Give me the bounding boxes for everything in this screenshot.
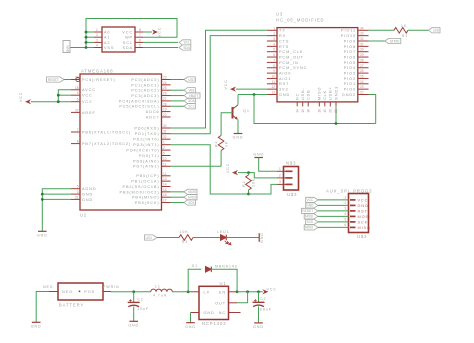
- svg-text:GND: GND: [233, 136, 244, 140]
- regulator U1 NCP1402: [191, 281, 241, 326]
- net flag MISO at U2 PB4: [171, 195, 198, 200]
- svg-text:10K: 10K: [252, 178, 256, 187]
- svg-text:OUT: OUT: [215, 301, 226, 305]
- svg-text:R1: R1: [402, 34, 408, 38]
- svg-text:20: 20: [75, 108, 79, 112]
- svg-text:4.7uH: 4.7uH: [153, 294, 167, 298]
- svg-text:26: 26: [163, 92, 167, 96]
- svg-text:3: 3: [96, 38, 98, 42]
- svg-text:GND: GND: [185, 325, 196, 329]
- wire: U3 GND pins to Q1 collector: [238, 93, 376, 125]
- wire: R3 to LED1: [193, 237, 221, 239]
- svg-text:10K: 10K: [179, 230, 188, 234]
- svg-text:13: 13: [163, 177, 167, 181]
- wire: AVCC/VCC bus to VCC arrow: [31, 90, 71, 103]
- svg-text:MISO: MISO: [358, 226, 371, 230]
- svg-text:3: 3: [279, 180, 281, 184]
- svg-text:23: 23: [163, 76, 167, 80]
- net flag LED at U2 PC0: [171, 77, 196, 82]
- svg-text:17: 17: [163, 199, 167, 203]
- svg-text:A2: A2: [104, 41, 110, 45]
- svg-text:STATE: STATE: [390, 39, 400, 43]
- svg-text:10uF: 10uF: [137, 307, 149, 311]
- svg-text:SCK: SCK: [188, 201, 195, 205]
- svg-text:5: 5: [345, 218, 347, 222]
- wire: U2 PD3 to connector net: [171, 145, 249, 194]
- net flag VCC to U$2 pin 1: [306, 197, 349, 202]
- svg-text:10: 10: [271, 74, 275, 78]
- capacitor C2 68uF: [253, 292, 272, 323]
- ground symbol below U2: [37, 231, 48, 237]
- svg-text:BATTERY: BATTERY: [59, 303, 84, 308]
- svg-text:11: 11: [163, 162, 167, 166]
- svg-text:30: 30: [163, 124, 167, 128]
- svg-text:25: 25: [360, 74, 364, 78]
- svg-text:22: 22: [360, 91, 364, 95]
- svg-text:4: 4: [77, 91, 79, 95]
- svg-text:PD6(AIN0): PD6(AIN0): [133, 159, 159, 163]
- svg-text:PD3(INT1): PD3(INT1): [133, 143, 159, 147]
- svg-text:68uF: 68uF: [260, 307, 272, 311]
- svg-text:RX: RX: [279, 34, 286, 38]
- svg-text:VSS: VSS: [104, 46, 114, 50]
- svg-text:1: 1: [279, 167, 281, 171]
- svg-text:SCK: SCK: [358, 220, 369, 224]
- net flag RESET to U$2 pin 3: [302, 208, 349, 213]
- svg-text:NC: NC: [219, 311, 226, 315]
- net flag VBATT at U2 PC3: [171, 93, 201, 98]
- svg-text:VBATT: VBATT: [189, 94, 199, 98]
- ground symbol above connector: [253, 152, 264, 157]
- svg-text:PB0(ICP): PB0(ICP): [136, 174, 159, 178]
- svg-text:18: 18: [75, 86, 79, 90]
- inversion bubble on PC6(/RESET) pin: [76, 78, 80, 82]
- svg-text:9: 9: [163, 152, 165, 156]
- svg-text:7: 7: [77, 128, 79, 132]
- svg-text:A0: A0: [104, 30, 110, 34]
- svg-text:PC4(ADC4/SDA): PC4(ADC4/SDA): [119, 99, 160, 103]
- resistor R4 1K: [215, 136, 229, 151]
- svg-text:1: 1: [163, 141, 165, 145]
- svg-text:AREF: AREF: [82, 111, 96, 115]
- svg-text:ATMEGA168: ATMEGA168: [81, 69, 113, 74]
- svg-text:PIO10: PIO10: [341, 34, 356, 38]
- svg-text:GND3: GND3: [334, 86, 338, 100]
- svg-text:MOSI: MOSI: [305, 215, 313, 219]
- svg-text:3: 3: [345, 207, 347, 211]
- svg-text:9: 9: [273, 69, 275, 73]
- svg-text:AIO1: AIO1: [279, 77, 291, 81]
- net flag SCL at U2 PC5: [171, 104, 196, 109]
- svg-text:33: 33: [360, 32, 364, 36]
- svg-text:CLK: CLK: [323, 90, 327, 100]
- svg-text:LED: LED: [188, 78, 195, 82]
- svg-text:SCL: SCL: [184, 41, 190, 45]
- svg-text:GND: GND: [37, 234, 48, 238]
- net flag RESET at U2 PC6: [47, 77, 72, 82]
- svg-text:MISO: MISO: [318, 87, 322, 100]
- svg-text:4: 4: [96, 44, 98, 48]
- svg-text:VCC: VCC: [224, 79, 228, 89]
- net flag SCK to U$2 pin 5: [306, 219, 349, 224]
- svg-text:C2: C2: [260, 297, 266, 301]
- svg-text:NC: NC: [296, 93, 300, 100]
- vcc symbol at U1 output: [262, 287, 276, 294]
- svg-text:R2: R2: [242, 181, 246, 187]
- svg-text:PB3(MOSI/OC2): PB3(MOSI/OC2): [120, 190, 160, 194]
- svg-text:28: 28: [163, 102, 167, 106]
- svg-text:4: 4: [273, 42, 275, 46]
- wire: left pins bus to GND label: [70, 19, 177, 49]
- svg-text:PC3(ADC3): PC3(ADC3): [131, 94, 159, 98]
- svg-text:MOSI: MOSI: [188, 190, 196, 194]
- svg-text:RESET: RESET: [302, 209, 313, 213]
- svg-text:RST: RST: [358, 209, 368, 213]
- svg-text:24: 24: [163, 81, 167, 85]
- svg-text:22: 22: [163, 113, 167, 117]
- svg-text:PB2(SS/OC1B): PB2(SS/OC1B): [123, 185, 160, 189]
- wire: battery POS to L1: [111, 290, 151, 293]
- svg-text:GND: GND: [306, 204, 314, 208]
- svg-text:PC0(ADC0): PC0(ADC0): [131, 78, 159, 82]
- svg-text:21: 21: [75, 195, 79, 199]
- svg-text:USB-: USB-: [301, 87, 305, 100]
- svg-text:19: 19: [163, 108, 167, 112]
- svg-text:5: 5: [273, 48, 275, 52]
- svg-text:GND: GND: [128, 324, 139, 328]
- svg-text:RESET: RESET: [48, 78, 59, 82]
- svg-text:PD0(RXD): PD0(RXD): [134, 126, 159, 130]
- svg-text:PWRIN: PWRIN: [103, 285, 119, 289]
- svg-text:27: 27: [163, 97, 167, 101]
- svg-text:PD7(AIN1): PD7(AIN1): [133, 165, 159, 169]
- svg-text:VB1: VB1: [188, 89, 194, 93]
- svg-text:PD1(TXD): PD1(TXD): [135, 132, 160, 136]
- wire: LED1 to GND: [226, 237, 259, 239]
- svg-text:6: 6: [139, 38, 141, 42]
- svg-text:2: 2: [345, 201, 347, 205]
- svg-text:POS: POS: [84, 290, 95, 294]
- svg-text:10: 10: [163, 157, 167, 161]
- svg-text:11: 11: [272, 80, 276, 84]
- svg-text:31: 31: [163, 130, 167, 134]
- svg-text:PIO0: PIO0: [344, 88, 356, 92]
- svg-text:N$3: N$3: [286, 161, 296, 166]
- svg-text:RTS: RTS: [279, 45, 289, 49]
- svg-text:R4: R4: [215, 141, 219, 147]
- svg-text:U3: U3: [276, 12, 283, 17]
- ground symbol at C2: [253, 323, 264, 329]
- svg-text:VCC: VCC: [82, 100, 93, 104]
- net flag SDA: [143, 45, 191, 50]
- diode D1 MBRA140: [192, 264, 238, 272]
- wire: EN to VCC output node: [237, 290, 263, 293]
- svg-text:U1: U1: [220, 281, 227, 286]
- header U$2 AUX_SPI_PROG3: [326, 189, 372, 240]
- svg-text:VCC: VCC: [226, 163, 230, 173]
- net flag SCK at U2 PB5: [171, 200, 196, 205]
- svg-text:GND: GND: [204, 311, 215, 315]
- svg-text:4: 4: [345, 212, 347, 216]
- resistor R1 1K at U3 PIO11: [369, 24, 429, 38]
- svg-text:CTS: CTS: [279, 39, 289, 43]
- net flag GND to U$2 pin 2: [306, 203, 349, 208]
- wire: U2 ground pins bus: [41, 189, 71, 232]
- svg-text:13: 13: [271, 91, 275, 95]
- LED LED1: [217, 230, 231, 245]
- wire: VCC to connector pin 2: [238, 171, 277, 178]
- svg-text:PCM_OUT: PCM_OUT: [279, 55, 304, 59]
- svg-text:18: 18: [318, 109, 322, 113]
- svg-text:RST: RST: [279, 82, 289, 86]
- svg-text:VCC: VCC: [358, 198, 369, 202]
- svg-text:14: 14: [295, 109, 299, 113]
- svg-text:6: 6: [345, 223, 347, 227]
- wire: pin3 net riser: [249, 184, 278, 194]
- svg-text:1K: 1K: [401, 24, 407, 28]
- svg-text:MBRA140: MBRA140: [215, 264, 238, 268]
- svg-text:VCC: VCC: [122, 30, 133, 34]
- svg-text:2: 2: [279, 174, 281, 178]
- svg-text:PB5(SCK): PB5(SCK): [135, 201, 160, 205]
- svg-text:3: 3: [77, 190, 79, 194]
- svg-text:NEG: NEG: [62, 290, 73, 294]
- svg-text:CSB: CSB: [307, 89, 311, 100]
- svg-text:3: 3: [273, 37, 275, 41]
- svg-text:SCK: SCK: [307, 220, 314, 224]
- battery BATTERY: [49, 283, 111, 308]
- svg-text:A1: A1: [104, 36, 110, 40]
- svg-text:VCC: VCC: [19, 92, 23, 102]
- wire: U2 PD7 to R4: [171, 165, 222, 167]
- net flag MOSI at U2 PB3: [171, 189, 198, 194]
- svg-text:VCC: VCC: [82, 94, 93, 98]
- svg-text:26: 26: [360, 69, 364, 73]
- svg-text:PC5(ADC5/SCL): PC5(ADC5/SCL): [119, 105, 159, 109]
- svg-text:AVCC: AVCC: [82, 88, 96, 92]
- svg-text:7: 7: [139, 33, 141, 37]
- svg-text:SDA: SDA: [122, 46, 133, 50]
- svg-text:25: 25: [163, 86, 167, 90]
- svg-text:U$2: U$2: [357, 234, 367, 239]
- svg-text:PCM_SYNC: PCM_SYNC: [279, 66, 307, 70]
- svg-text:6: 6: [273, 53, 275, 57]
- wire: L1 to U1 LX: [172, 290, 190, 293]
- svg-text:14: 14: [163, 183, 167, 187]
- svg-text:1: 1: [273, 26, 275, 30]
- svg-text:12: 12: [271, 85, 275, 89]
- svg-text:19: 19: [323, 109, 327, 113]
- svg-text:6: 6: [77, 98, 79, 102]
- svg-text:L1: L1: [155, 284, 161, 288]
- svg-text:MOSI: MOSI: [358, 215, 371, 219]
- connector U$3 N$3: [277, 161, 299, 198]
- ground symbol at C1: [128, 321, 139, 327]
- svg-text:U$3: U$3: [287, 192, 297, 197]
- svg-text:PIO9: PIO9: [344, 39, 356, 43]
- net flag SCL: [143, 40, 191, 45]
- svg-text:MISO: MISO: [188, 196, 197, 200]
- svg-text:30: 30: [360, 48, 364, 52]
- net flag MISO to U$2 pin 6: [304, 225, 348, 230]
- svg-text:PB6(XTAL1/TOSC1): PB6(XTAL1/TOSC1): [82, 130, 131, 134]
- svg-text:GND: GND: [253, 152, 264, 156]
- svg-text:SDA: SDA: [188, 99, 195, 103]
- svg-text:LX: LX: [204, 290, 210, 294]
- svg-text:VCC: VCC: [306, 198, 313, 202]
- svg-text:PIO2: PIO2: [344, 77, 356, 81]
- svg-text:8: 8: [77, 140, 79, 144]
- svg-text:C1: C1: [137, 297, 143, 301]
- svg-text:MISO: MISO: [305, 226, 314, 230]
- resistor R2 10K: [242, 173, 256, 196]
- svg-text:ADC6: ADC6: [146, 110, 160, 114]
- svg-text:PC6(/RESET): PC6(/RESET): [82, 78, 116, 82]
- svg-text:GND: GND: [66, 46, 70, 54]
- vcc symbol near R2: [226, 163, 238, 175]
- bluetooth module U3 HC_05_MODIFIED: [267, 12, 369, 113]
- svg-text:PIO6: PIO6: [344, 55, 356, 59]
- wire: boost diode branch: [188, 269, 201, 292]
- svg-text:PIO11: PIO11: [341, 29, 356, 33]
- svg-text:PD4(XCK/T0): PD4(XCK/T0): [126, 149, 159, 153]
- svg-text:EN: EN: [219, 290, 226, 294]
- net flag MOSI to U$2 pin 4: [304, 214, 348, 219]
- svg-text:15: 15: [163, 188, 167, 192]
- svg-text:HC_05_MODIFIED: HC_05_MODIFIED: [276, 18, 324, 23]
- svg-text:34: 34: [360, 26, 364, 30]
- svg-text:PC2(ADC2): PC2(ADC2): [131, 89, 159, 93]
- svg-text:SCL: SCL: [123, 41, 133, 45]
- svg-text:AIO0: AIO0: [279, 72, 291, 76]
- svg-text:GND: GND: [358, 204, 369, 208]
- svg-text:PCM_IN: PCM_IN: [279, 61, 299, 65]
- svg-text:LED: LED: [433, 29, 440, 33]
- svg-text:GND: GND: [279, 93, 290, 97]
- wire: U1 GND to ground: [190, 313, 192, 323]
- svg-text:1K: 1K: [224, 141, 228, 147]
- svg-text:8: 8: [139, 28, 141, 32]
- net label GND (rotated flag): [63, 41, 70, 54]
- wire: diode to EN node: [211, 269, 238, 293]
- I2C chip IC1: [94, 27, 143, 52]
- svg-text:LED1: LED1: [217, 230, 230, 234]
- svg-text:5: 5: [77, 185, 79, 189]
- resistor R3 10K: [179, 230, 193, 244]
- wire: battery NEG to GND: [36, 292, 49, 323]
- svg-text:31: 31: [360, 42, 364, 46]
- wire: flag to R3: [157, 237, 179, 239]
- svg-text:1: 1: [96, 28, 98, 32]
- net flag LED (drives LED1): [145, 235, 158, 240]
- svg-text:D1: D1: [192, 264, 198, 268]
- ground symbol at battery: [31, 322, 42, 328]
- vcc symbol left of U2: [19, 92, 31, 105]
- wire: Q1 base to R4: [221, 113, 232, 136]
- svg-text:1: 1: [345, 196, 347, 200]
- svg-text:LED: LED: [146, 236, 153, 240]
- svg-text:GND: GND: [82, 198, 93, 202]
- svg-text:PIO4: PIO4: [344, 66, 356, 70]
- svg-text:PIO1: PIO1: [344, 82, 356, 86]
- capacitor C1 10uF: [128, 292, 149, 322]
- svg-text:PB4(MISO): PB4(MISO): [132, 196, 160, 200]
- svg-text:SCL: SCL: [188, 105, 194, 109]
- svg-text:PD5(T1): PD5(T1): [139, 154, 160, 158]
- svg-text:28: 28: [360, 58, 364, 62]
- inductor L1 4.7uH: [151, 284, 173, 297]
- svg-text:GND: GND: [253, 325, 264, 329]
- svg-text:GND: GND: [82, 193, 93, 197]
- svg-text:PD2(INT0): PD2(INT0): [133, 138, 159, 142]
- svg-text:29: 29: [360, 53, 364, 57]
- svg-text:VCC: VCC: [267, 287, 277, 291]
- svg-text:GND: GND: [260, 232, 264, 243]
- net flag SDA at U2 PC4: [171, 98, 196, 103]
- svg-text:PIO8: PIO8: [344, 45, 356, 49]
- wire: OUT feedback jog: [237, 292, 248, 303]
- svg-text:16: 16: [163, 193, 167, 197]
- svg-text:SDA: SDA: [183, 46, 190, 50]
- svg-text:32: 32: [163, 135, 167, 139]
- svg-text:8: 8: [273, 64, 275, 68]
- svg-text:23: 23: [360, 85, 364, 89]
- svg-text:PC1(ADC1): PC1(ADC1): [131, 83, 159, 87]
- svg-text:TX: TX: [279, 29, 286, 33]
- ground symbol at U1: [185, 323, 196, 329]
- vcc symbol at IC1 VCC pin: [143, 27, 162, 37]
- ground symbol at Q1 emitter: [233, 134, 244, 140]
- svg-text:WP: WP: [125, 36, 133, 40]
- svg-text:GND2: GND2: [342, 93, 356, 97]
- net flag STATE at U3 PIO9: [369, 38, 401, 43]
- svg-text:2: 2: [273, 32, 275, 36]
- svg-text:PB1(OC1A): PB1(OC1A): [131, 180, 159, 184]
- svg-text:NEG: NEG: [43, 285, 54, 289]
- svg-text:PIO3: PIO3: [344, 72, 356, 76]
- wire: R4 to PD7 net: [220, 151, 222, 167]
- svg-text:PCM_CLK: PCM_CLK: [279, 50, 303, 54]
- svg-text:PIO5: PIO5: [344, 61, 356, 65]
- transistor Q1: [233, 95, 250, 134]
- wire: U2 PD0(RXD) to U3 TX: [171, 30, 267, 128]
- svg-text:12: 12: [163, 172, 167, 176]
- svg-text:R3: R3: [182, 240, 188, 244]
- svg-text:GND: GND: [31, 325, 42, 329]
- svg-text:2: 2: [163, 146, 165, 150]
- svg-text:7: 7: [273, 58, 275, 62]
- svg-text:Q1: Q1: [243, 109, 250, 113]
- svg-text:VCC: VCC: [158, 27, 162, 37]
- vcc symbol at U3 3V3: [224, 79, 267, 92]
- svg-text:3V3: 3V3: [279, 88, 288, 92]
- net flag VB1 at U2 PC2: [171, 88, 196, 93]
- svg-text:AGND: AGND: [82, 187, 97, 191]
- svg-text:5: 5: [139, 44, 141, 48]
- svg-text:PIO7: PIO7: [344, 50, 356, 54]
- wire: GND to connector pin 1: [259, 158, 277, 172]
- svg-text:U2: U2: [80, 213, 87, 218]
- svg-text:32: 32: [360, 37, 364, 41]
- svg-text:ADC7: ADC7: [146, 115, 160, 119]
- svg-text:2: 2: [96, 33, 98, 37]
- ground symbol right of LED1 (rotated): [259, 232, 264, 243]
- svg-text:USB+: USB+: [329, 86, 333, 100]
- svg-text:15: 15: [301, 109, 305, 113]
- svg-text:16: 16: [306, 109, 310, 113]
- svg-text:NCP1402: NCP1402: [202, 321, 226, 326]
- net flag LED at R1: [429, 28, 441, 33]
